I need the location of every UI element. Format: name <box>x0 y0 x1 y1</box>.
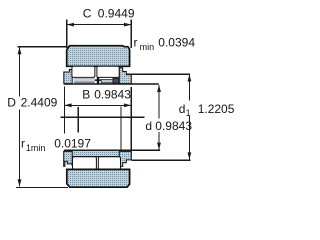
arrowhead D top <box>18 47 22 54</box>
arrowhead C left <box>67 23 74 27</box>
needle pin behind cage top half <box>74 78 96 83</box>
bore surface line top half <box>64 83 159 85</box>
shaft abutment line vertical right <box>120 106 122 154</box>
second pin top half <box>101 80 113 83</box>
dimension d1 extension line bottom <box>131 159 190 161</box>
arrowhead B right <box>124 103 131 107</box>
svg-text:1min: 1min <box>26 143 46 153</box>
roller right bottom half <box>98 157 120 170</box>
svg-text:B0.9843: B0.9843 <box>82 87 131 101</box>
dimension B line <box>64 104 131 106</box>
arrowhead d1 down <box>188 152 192 159</box>
outer ring top half <box>67 46 130 67</box>
arrowhead d1 up <box>188 74 192 81</box>
dimension D extension line bottom <box>16 186 68 188</box>
svg-text:0.0197: 0.0197 <box>54 136 91 150</box>
inner ring right flange bottom half <box>119 151 131 166</box>
arrowhead B left <box>64 103 71 107</box>
svg-text:min: min <box>140 42 155 52</box>
dimension d1 line lower segment <box>188 116 190 159</box>
dimension d1 line upper segment <box>188 74 190 100</box>
svg-text:1: 1 <box>186 108 191 118</box>
svg-text:r: r <box>134 36 138 50</box>
inner ring band bottom half <box>64 150 131 156</box>
bore centerline <box>61 116 145 118</box>
cage block top half <box>113 78 119 83</box>
dimension B extension line left <box>63 87 65 134</box>
roller left bottom half <box>73 157 97 170</box>
dimension D extension line top <box>18 46 67 48</box>
svg-text:D2.4409: D2.4409 <box>7 95 57 109</box>
dimension B extension line right <box>130 87 132 150</box>
inner ring right flange top half <box>119 68 131 84</box>
cage stud top half <box>95 77 102 83</box>
outer ring bottom half <box>67 169 130 187</box>
dimension d line lower segment <box>158 132 160 150</box>
svg-text:d: d <box>179 102 186 116</box>
dimension D line upper segment <box>19 47 21 97</box>
roller right top half <box>97 66 119 77</box>
dimension C extension line right <box>130 20 132 49</box>
inner ring left flange bottom half <box>64 151 72 166</box>
arrowhead d down <box>157 143 161 150</box>
svg-text:C0.9449: C0.9449 <box>83 6 135 20</box>
dimension d1 extension line top <box>127 73 191 75</box>
svg-text:d0.9843: d0.9843 <box>145 119 192 133</box>
bore surface line bottom half <box>64 149 160 151</box>
svg-text:r: r <box>21 136 25 150</box>
dimension D line lower segment <box>19 110 21 187</box>
arrowhead D bottom <box>18 179 22 186</box>
dimension C line <box>67 24 132 26</box>
dimension C extension line left <box>66 20 68 49</box>
inner ring left flange top half <box>64 70 72 84</box>
dimension d line upper segment <box>158 85 160 119</box>
roller left top half <box>72 66 95 77</box>
shaft abutment line vertical left <box>77 107 79 132</box>
arrowhead C right <box>124 23 131 27</box>
svg-text:0.0394: 0.0394 <box>158 36 195 50</box>
svg-text:1.2205: 1.2205 <box>198 102 235 116</box>
arrowhead d up <box>157 85 161 92</box>
